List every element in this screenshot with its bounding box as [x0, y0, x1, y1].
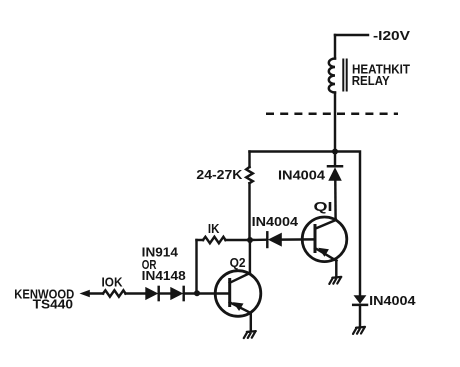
wire vertical branch down to base node [195, 240, 197, 293]
svg-text:IN4004: IN4004 [369, 293, 416, 308]
svg-text:24-27K: 24-27K [196, 167, 243, 182]
diode D3 1N4004 (points left) [267, 232, 282, 247]
arrow to Kenwood (points left) [80, 290, 90, 297]
wire junction A left to resistor branch [250, 150, 336, 152]
inductor relay coil K1 [329, 59, 347, 93]
wire -120V feed horizontal [335, 34, 368, 36]
svg-text:IN4148: IN4148 [142, 268, 186, 283]
wire -120V vertical drop to coil [334, 35, 336, 59]
ground under D4 [353, 327, 365, 334]
wire 1K right lead to junction B [226, 239, 251, 241]
diode D1b (points right) [170, 287, 183, 300]
wire D3 to Q1 base [282, 238, 314, 241]
wire D4 to ground [359, 305, 361, 327]
wire D2 to Q1 collector [334, 181, 337, 221]
wire junction B to diode D3 [250, 238, 267, 241]
resistor R 24-27K [246, 167, 253, 183]
wire Q1 emitter down [335, 261, 337, 277]
transistor Q1 (PNP) [302, 217, 347, 262]
diode D2 1N4004 (points up, on main wire) [328, 166, 342, 181]
wire right branch from junction A [335, 152, 360, 296]
wire 1K left lead with corner [197, 239, 204, 241]
label 1N914 OR 1N4148 [142, 245, 186, 284]
wire 10K to D1a [126, 292, 146, 294]
resistor R1 10K [103, 290, 126, 296]
wire Q2 emitter down [250, 313, 252, 331]
wire arrow to 10K [89, 292, 104, 294]
svg-text:IK: IK [208, 221, 220, 236]
svg-text:IN4004: IN4004 [278, 167, 326, 182]
label KENWOOD TS440 [14, 286, 74, 311]
resistor R2 1K [203, 237, 226, 243]
node junction A [332, 149, 338, 155]
wire D1b to Q2 base [184, 292, 229, 294]
svg-text:RELAY: RELAY [352, 73, 390, 88]
dashed separator line [266, 112, 398, 115]
wire left branch bottom segment [248, 183, 250, 240]
svg-text:IN4004: IN4004 [252, 214, 299, 229]
wire D1a to D1b [159, 292, 171, 294]
wire Q2 collector up to junction B [249, 240, 251, 273]
node junction C [194, 290, 200, 296]
ground under Q1 [329, 277, 341, 284]
svg-text:IOK: IOK [102, 274, 124, 289]
svg-text:QI: QI [314, 199, 333, 214]
diode D1a (points right) [145, 287, 158, 300]
wire junction A to D2 [334, 152, 336, 167]
svg-text:Q2: Q2 [230, 255, 246, 270]
ground under Q2 [244, 331, 256, 338]
wire left branch top segment [248, 152, 250, 168]
node junction B [247, 237, 253, 243]
svg-text:TS440: TS440 [33, 297, 73, 312]
diode D4 1N4004 (points down) [353, 295, 367, 305]
label HEATHKIT RELAY [352, 61, 410, 88]
wire coil to junction A [334, 93, 336, 152]
svg-text:-I20V: -I20V [373, 28, 410, 43]
transistor Q2 (PNP) [215, 271, 261, 317]
